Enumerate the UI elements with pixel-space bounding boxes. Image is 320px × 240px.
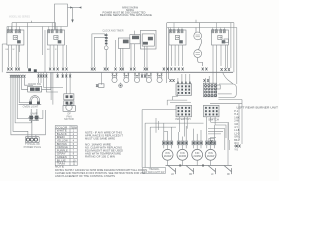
svg-text:INF SWITCH: INF SWITCH <box>176 118 191 121</box>
svg-text:DOOR SW: DOOR SW <box>28 82 41 86</box>
svg-text:MODEL 363 SERIES: MODEL 363 SERIES <box>9 16 30 19</box>
svg-text:GREEN: GREEN <box>57 157 67 159</box>
svg-text:COLOR: COLOR <box>56 127 67 129</box>
svg-text:RATING OF 105 C MIN: RATING OF 105 C MIN <box>85 156 115 159</box>
svg-text:LR: LR <box>171 174 174 176</box>
svg-text:RR: RR <box>189 174 193 176</box>
svg-text:RED: RED <box>57 137 66 139</box>
svg-text:W: W <box>13 49 15 51</box>
svg-text:MUST USE SAME WIRE: MUST USE SAME WIRE <box>85 138 115 141</box>
svg-text:MOTOR: MOTOR <box>64 117 74 121</box>
svg-text:GRAY: GRAY <box>57 153 67 156</box>
svg-text:BEFORE SERVICING THE APPLIANCE: BEFORE SERVICING THE APPLIANCE <box>100 14 152 17</box>
svg-text:WHITE: WHITE <box>57 131 68 133</box>
svg-text:CLOCK AND TIMER: CLOCK AND TIMER <box>103 29 124 32</box>
svg-text:AND PLACEMENT OF THE CONTROL C: AND PLACEMENT OF THE CONTROL CHARTS <box>55 175 115 178</box>
svg-text:BLUE: BLUE <box>57 160 67 162</box>
svg-text:POWER PLUG: POWER PLUG <box>24 145 42 149</box>
svg-text:SWITCH: SWITCH <box>208 119 219 122</box>
svg-text:SW AND LIGHT SW: SW AND LIGHT SW <box>144 171 166 174</box>
svg-text:BROWN: BROWN <box>57 144 67 146</box>
svg-text:OVEN LIGHT: OVEN LIGHT <box>23 105 39 109</box>
svg-text:PURPLE: PURPLE <box>57 150 69 152</box>
svg-text:TERM: TERM <box>71 127 77 129</box>
svg-text:ORANGE: ORANGE <box>57 146 69 149</box>
svg-text:BLACK: BLACK <box>57 133 68 136</box>
svg-text:LEFT REAR BURNER UNIT: LEFT REAR BURNER UNIT <box>237 106 279 109</box>
svg-text:THERMAL: THERMAL <box>149 168 161 171</box>
svg-text:YELLOW: YELLOW <box>57 141 69 143</box>
